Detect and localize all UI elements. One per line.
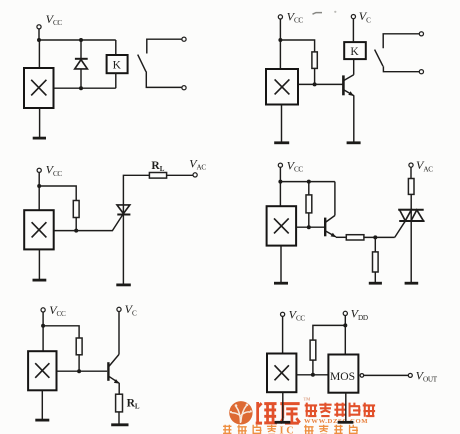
wire bottom rail (U1 output) [54,87,116,89]
node S2 bottom terminal [419,70,423,74]
resistor R6 [373,252,379,272]
node VCC terminal [278,163,282,167]
wire VCC down to U5 [42,312,44,351]
junction rail R4 [307,180,311,184]
scan artifact dash [313,13,323,15]
wire Q1 collector to K2 [353,59,355,75]
op-amp U6 optocoupler box [267,354,296,393]
ground below U3 [33,279,47,282]
svg-text:K: K [350,46,359,58]
watermark char zi [319,403,331,416]
node VDD terminal [343,311,347,315]
wire VCC down to U3 [38,172,40,210]
node VAC terminal [193,173,197,177]
wire relay branch bottom [115,73,117,88]
wire rail to R4 [308,182,310,195]
junction base node [77,369,81,373]
junction VCC rail [41,324,45,328]
node S1 bottom terminal [182,86,186,90]
wire Q1 emitter to ground [353,95,355,142]
ground below R6 [369,282,382,285]
resistor R5 [346,235,364,240]
wire Q3 emitter to R9 [118,383,120,394]
ground below Q1 [347,141,361,144]
wire rail to R1 [280,40,314,52]
wire into optocoupler [38,40,40,68]
junction gate node [74,229,78,233]
op-amp U4 optocoupler box [267,206,297,245]
ground below T2 [405,282,419,285]
wire Q3 collector to VC [118,312,120,355]
node VOUT terminal [408,373,412,377]
junction VCC rail [278,38,282,42]
svg-text:MOS: MOS [330,370,355,383]
junction diode bottom [79,86,83,90]
wire rail to R10 [313,325,345,340]
wire U1 to ground [39,108,41,138]
wire top rail [39,39,116,41]
watermark char wei [256,402,277,423]
watermark char dian [305,403,317,417]
wire U3 to ground [38,249,40,279]
wire diode cathode [80,69,82,88]
wire VC to K2 [352,19,354,42]
op-amp U7 MOS driver box [328,355,358,393]
wire VCC down to U6 [282,316,284,353]
node S1 top terminal [182,37,186,41]
node VCC terminal [37,168,41,172]
wire VCC down to U2 [279,19,281,69]
relay K1 [107,55,128,73]
wire MOS to VOUT [364,374,408,376]
wire Q2 collector to rail [334,182,336,216]
wire VCC down to U4 [279,167,281,206]
ground below MOS [338,421,354,424]
junction diode top [79,38,83,42]
node VCC terminal [281,312,285,316]
junction input node [311,373,315,377]
junction VCC rail [278,180,282,184]
relay K2 [344,42,366,59]
transistor Q1 [343,75,354,96]
wire base [296,226,324,228]
transistor Q3 [108,354,119,383]
svg-text:I C: I C [280,426,294,434]
watermark char wang [363,403,375,417]
wire R10 to input node [312,360,314,375]
junction VCC rail [37,184,41,188]
node VCC terminal [41,308,45,312]
wire top rail to collector [280,181,335,183]
wire U4 to ground [280,246,282,283]
ground below R9 [111,423,128,426]
wire U6 to ground [282,392,284,422]
wire R1 to base node [314,68,316,84]
wire MOS to ground [345,393,347,422]
node MOS output pin [360,374,364,378]
junction VDD rail [343,323,347,327]
resistor R8 [76,338,82,355]
junction base node [313,82,317,86]
op-amp U2 optocoupler box [266,69,298,105]
node S2 top terminal [419,32,423,36]
svg-text:K: K [113,60,122,72]
wire R5 to gate [364,236,395,238]
ground below U5 [35,419,49,422]
junction VCC rail [37,38,41,42]
node VC terminal [351,15,355,19]
wire VAC to R7 [410,167,412,178]
resistor R3 load [149,173,166,179]
wire R6 to ground [374,272,376,283]
switch S2 contacts [375,34,420,72]
wire rail to R2 [39,186,76,201]
junction R6 node [373,235,377,239]
wire R4 to base node [308,213,310,227]
switch S1 contacts [138,39,182,87]
wire R2 to gate node [75,218,77,231]
node VCC terminal [37,25,41,29]
wire rail to R8 [43,326,79,338]
resistor R2 [73,201,79,218]
resistor R4 [306,195,312,213]
capacitor D1 flyback diode [75,59,88,69]
junction base node [307,225,311,229]
ground below U4 [274,282,288,285]
watermark char ku [280,404,300,424]
watermark char shi [334,403,345,417]
watermark char chang [350,403,361,417]
wire diode anode [80,40,82,58]
node VAC terminal [409,163,413,167]
resistor R10 [310,340,316,360]
resistor R9 load [116,394,123,412]
wire VCC to rail [38,29,40,40]
node VC terminal [117,307,121,311]
wire base [57,370,108,372]
wire R3 to VAC [167,174,194,176]
watermark icon circle [229,401,252,424]
node VCC terminal [278,15,282,19]
wire R6 node down [374,237,376,252]
op-amp U3 optocoupler box [24,210,54,249]
svg-text:WWW.DZSC.COM: WWW.DZSC.COM [304,418,368,425]
wire R7 through triac to ground [410,194,412,282]
wire relay branch top [115,40,117,55]
wire U6 output to MOS [296,374,328,376]
wire U5 to ground [41,390,43,419]
wire R8 to base node [78,355,80,371]
op-amp U5 optocoupler box [28,351,56,390]
wire R9 to ground [118,412,120,424]
resistor R1 [312,52,317,69]
wire base [298,83,343,85]
wire Q2 emitter to R5 [336,236,346,238]
ground below T1 [116,283,131,286]
op-amp U1 optocoupler box [24,68,54,108]
svg-text:TM: TM [304,397,311,402]
transistor T1 thyristor [117,175,149,284]
transistor Q2 [325,216,336,238]
ground below U6 [275,421,291,424]
wire gate angled to T2 [395,221,406,237]
resistor R7 [408,179,414,195]
ground below U2 [274,141,289,144]
wire U3 output to thyristor gate [54,215,123,231]
ground below U1 [33,137,46,140]
watermark slogan row [223,425,276,434]
wire U2 to ground [281,105,283,143]
transistor T2 triac [398,210,424,221]
wire VDD to MOS [344,316,346,355]
